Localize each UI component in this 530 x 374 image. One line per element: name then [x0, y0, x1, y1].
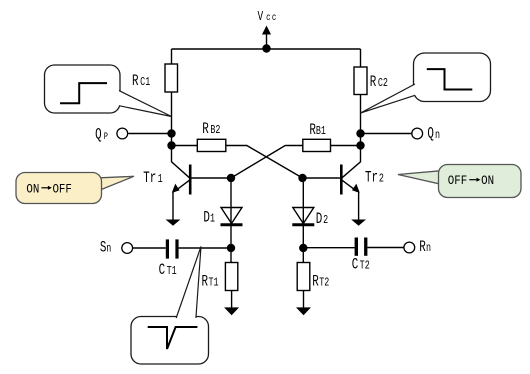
svg-text:T2: T2 [360, 259, 370, 273]
svg-text:2: 2 [379, 172, 384, 186]
svg-text:T2: T2 [319, 276, 329, 290]
svg-text:cc: cc [266, 11, 278, 24]
svg-text:OFF: OFF [448, 173, 467, 188]
svg-text:2: 2 [323, 214, 328, 228]
svg-text:1: 1 [158, 173, 163, 187]
svg-text:C1: C1 [140, 76, 150, 90]
svg-text:Tr: Tr [365, 170, 378, 187]
svg-text:P: P [104, 131, 108, 143]
svg-text:R: R [202, 274, 209, 291]
svg-text:V: V [258, 10, 264, 25]
svg-text:B1: B1 [316, 125, 326, 139]
svg-text:OFF: OFF [52, 182, 71, 197]
svg-text:R: R [312, 274, 319, 291]
svg-text:R: R [370, 74, 377, 91]
svg-text:D: D [316, 211, 323, 228]
svg-text:C: C [352, 257, 359, 274]
svg-text:R: R [309, 122, 316, 139]
svg-text:R: R [132, 73, 139, 90]
svg-text:n: n [106, 242, 111, 256]
svg-text:Q: Q [427, 126, 434, 143]
svg-text:n: n [426, 242, 431, 256]
svg-text:C: C [159, 262, 166, 279]
svg-text:B2: B2 [210, 124, 220, 138]
svg-text:R: R [202, 121, 209, 138]
svg-text:C2: C2 [378, 77, 388, 91]
svg-text:R: R [419, 239, 426, 256]
svg-text:ON: ON [481, 173, 494, 188]
svg-text:T1: T1 [167, 265, 177, 279]
svg-text:T1: T1 [209, 276, 219, 290]
svg-text:1: 1 [210, 212, 215, 226]
svg-text:D: D [203, 210, 210, 227]
svg-text:n: n [435, 129, 440, 143]
svg-text:Tr: Tr [143, 170, 156, 187]
svg-text:ON: ON [26, 182, 39, 197]
svg-text:S: S [100, 240, 107, 257]
svg-text:Q: Q [95, 127, 102, 144]
